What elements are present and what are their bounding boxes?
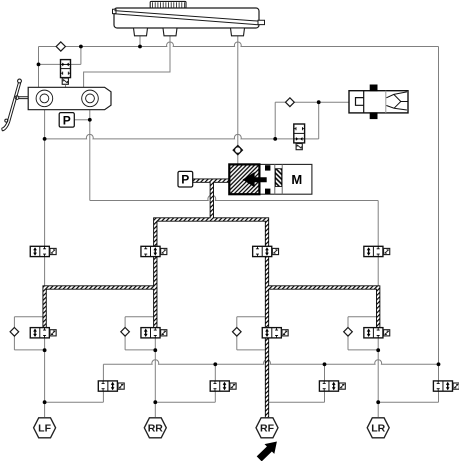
solenoid valve RF release bbox=[319, 381, 345, 391]
wire RR release valve connections bbox=[155, 364, 215, 402]
check valve pump suction bbox=[233, 146, 242, 155]
wire MC primary circuit down bbox=[44, 110, 46, 247]
solenoid valve RR hold bbox=[141, 328, 167, 338]
check valve reservoir feed bbox=[56, 42, 65, 51]
node RR wheel bbox=[144, 418, 166, 438]
svg-text:M: M bbox=[291, 172, 302, 187]
svg-text:LF: LF bbox=[38, 423, 51, 435]
pressure switch P master cylinder bbox=[59, 113, 74, 128]
solenoid valve LR isolation bbox=[364, 246, 390, 256]
solenoid valve reservoir cut bbox=[61, 60, 71, 88]
check valve LR bypass bbox=[344, 328, 353, 337]
wire top return rail bbox=[39, 42, 439, 47]
wire accumulator branch risers bbox=[274, 102, 276, 139]
wire LR release valve connections bbox=[378, 391, 438, 402]
check valve RF bypass bbox=[233, 328, 242, 337]
wire RF check-valve bypass bbox=[237, 317, 267, 350]
check valve LF bypass bbox=[10, 328, 19, 337]
solenoid valve LR hold bbox=[364, 328, 390, 338]
wire RF release valve connections bbox=[267, 364, 325, 402]
svg-text:RR: RR bbox=[148, 423, 164, 435]
solenoid valve LF isolation bbox=[30, 246, 56, 256]
solenoid valve LF hold bbox=[30, 328, 56, 338]
wire LF inline valve to branch corner bbox=[44, 256, 46, 287]
svg-text:LR: LR bbox=[371, 423, 385, 435]
wire secondary circuit across bbox=[90, 195, 378, 200]
solenoid valve accumulator bbox=[294, 124, 305, 150]
solenoid valve LR release bbox=[433, 381, 459, 391]
wire LF check-valve bypass bbox=[14, 317, 44, 350]
wire RR check-valve bypass bbox=[125, 317, 155, 350]
pump M motor unit bbox=[229, 164, 312, 194]
master cylinder primary port bbox=[36, 90, 53, 107]
wire feed valve branch bbox=[39, 63, 61, 65]
solenoid valve RF isolation bbox=[253, 246, 279, 256]
wire MC secondary circuit down bbox=[89, 110, 91, 201]
wire primary branch to accumulator valve bbox=[45, 134, 294, 139]
node RF wheel bbox=[256, 418, 278, 438]
wire bottom return rail bbox=[103, 360, 438, 365]
brake pedal bbox=[2, 79, 29, 131]
svg-text:P: P bbox=[181, 173, 189, 187]
wire LF wheel line bbox=[44, 338, 46, 417]
accumulator / pressure regulator bbox=[349, 85, 408, 119]
reservoir outlet ports bbox=[134, 28, 245, 36]
svg-text:P: P bbox=[63, 113, 71, 127]
wire LF release valve connections bbox=[45, 364, 104, 402]
node LF wheel bbox=[34, 418, 56, 438]
master cylinder body bbox=[28, 87, 111, 109]
svg-text:RF: RF bbox=[260, 423, 275, 435]
wire LR inline valve to branch corner bbox=[377, 256, 379, 287]
solenoid valve RR release bbox=[210, 381, 236, 391]
solenoid valve RR isolation bbox=[141, 246, 167, 256]
wire reservoir outlet2 to master cylinder bbox=[84, 36, 170, 88]
wire reservoir outlet1 drop bbox=[139, 36, 141, 47]
node LR wheel bbox=[367, 418, 389, 438]
reservoir body bbox=[113, 8, 265, 28]
highlight arrow to RF bbox=[257, 442, 277, 461]
reservoir cap bbox=[150, 1, 186, 8]
wire LR check-valve bypass bbox=[348, 317, 378, 350]
wire LR wheel line bbox=[377, 338, 379, 417]
wire left feed riser bbox=[38, 47, 40, 88]
pressure switch P pump bbox=[178, 171, 193, 187]
wire reservoir outlet3 to pump suction bbox=[237, 36, 239, 146]
check valve accumulator branch bbox=[286, 98, 295, 107]
master cylinder secondary port bbox=[82, 90, 99, 107]
solenoid valve RF hold bbox=[262, 328, 288, 338]
check valve RR bypass bbox=[121, 328, 130, 337]
wire RR wheel line bbox=[154, 338, 156, 417]
solenoid valve LF release bbox=[98, 381, 124, 391]
pressure line network bbox=[45, 181, 379, 418]
wire right return rail bbox=[438, 47, 440, 382]
